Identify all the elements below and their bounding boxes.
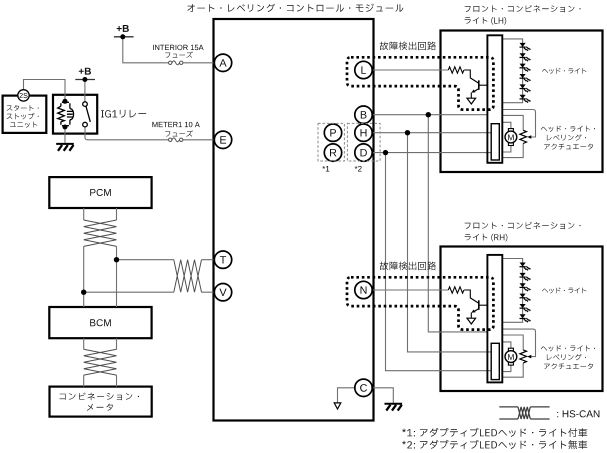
node B branch — [426, 112, 431, 117]
text: *1 marker — [322, 166, 329, 172]
headlight unit internals (RH) — [487, 255, 535, 383]
relay coil — [58, 102, 74, 125]
text: terminal letter E — [220, 136, 226, 143]
actuator label line3 (RH) — [544, 363, 593, 369]
terminal H — [355, 124, 372, 141]
text: actuator line3 — [544, 144, 593, 150]
relay switch — [83, 102, 91, 127]
terminal B — [355, 106, 372, 123]
wire terminal D to LH actuator — [372, 152, 491, 154]
wire PCM to braid to BCM (left conductor) — [83, 208, 85, 387]
ground (terminal C) — [385, 404, 403, 411]
text: terminal letter R — [330, 149, 336, 156]
start-stop unit box — [3, 96, 47, 133]
terminal E — [214, 131, 231, 148]
detection resistor — [448, 67, 464, 73]
ground (relay coil) — [56, 144, 74, 151]
text: +B label 2 — [79, 68, 91, 75]
headlight internal unit rectangle — [487, 35, 502, 163]
wire 2S to relay coil — [24, 80, 66, 102]
text: terminal letter A — [219, 59, 226, 66]
PCM box — [49, 177, 151, 208]
text: motor letter M LH — [508, 135, 514, 141]
text: note 1 adaptive LED with — [402, 428, 587, 437]
text: terminal letter B — [361, 111, 367, 118]
text: *2 marker — [355, 166, 362, 172]
text: fault detection circuit label — [380, 42, 436, 51]
twisted pair braid PCM-BCM — [84, 220, 117, 246]
front combination light LH box — [441, 31, 603, 173]
text: actuator line1 — [541, 126, 595, 132]
node CAN-L branch — [81, 290, 86, 295]
wire +B down to relay switch — [84, 80, 86, 102]
text: terminal letter H — [361, 129, 367, 136]
fault detection circuit (RH) — [347, 277, 493, 329]
text: note 2 adaptive LED without — [402, 440, 587, 449]
transistor Q (detection) — [464, 70, 487, 104]
wire CAN-L to terminal V — [84, 291, 215, 293]
wire CAN-H to terminal T — [117, 259, 215, 261]
relay coil node (bottom) — [63, 125, 68, 130]
node D branch — [383, 150, 388, 155]
text: HS-CAN legend text — [557, 410, 599, 417]
wire terminal H to LH actuator — [372, 132, 491, 134]
terminal L — [355, 61, 372, 78]
failure detection dotted enclosure — [347, 57, 493, 109]
text: terminal letter P — [330, 129, 336, 136]
terminal A — [214, 54, 231, 71]
LED string (6 LEDs) — [520, 43, 532, 103]
text: start-stop unit line1 — [7, 105, 39, 111]
text: terminal letter V — [219, 289, 226, 296]
front combination light RH box — [441, 247, 603, 392]
twisted pair braid to terminals T V — [174, 260, 202, 293]
+B source (to IG1 relay) — [75, 77, 95, 82]
text: combination meter line2 — [87, 404, 113, 411]
wiper arrow — [527, 135, 531, 139]
terminal P — [324, 124, 341, 141]
text: terminal letter N — [361, 286, 367, 293]
combination meter box — [50, 387, 152, 417]
text: terminal letter T — [220, 256, 226, 263]
text: title auto-leveling-control-module — [187, 4, 403, 12]
text: fuse label METER1 10 A — [152, 122, 199, 127]
wires actuator: position resistor top — [502, 115, 523, 130]
text: actuator line2 — [547, 134, 586, 140]
arrow out (terminal C internal) — [334, 403, 341, 409]
wires actuator: wiper feed — [502, 110, 535, 138]
twisted pair braid BCM-combination meter — [84, 349, 117, 375]
IG1 relay box — [53, 95, 97, 134]
wires actuator: motor bottom — [502, 146, 511, 153]
node CAN-H branch — [114, 257, 119, 262]
wire H branch down to RH actuator — [408, 133, 492, 352]
text: terminal letter L — [361, 66, 366, 73]
fuse INTERIOR 15A — [169, 61, 183, 65]
text: front combination line1 — [465, 5, 581, 12]
text: IG1 relay label — [101, 110, 146, 118]
actuator label line1 (RH) — [541, 345, 595, 351]
fault detection label (RH) — [380, 262, 436, 271]
text: PCM label — [90, 189, 111, 196]
text: fuse label INTERIOR 15A — [153, 45, 204, 50]
terminal D — [355, 144, 372, 161]
wires actuator: position resistor bottom — [502, 144, 523, 158]
terminal R — [324, 144, 341, 161]
position sensor resistor — [520, 130, 527, 143]
text: fuse kana label — [165, 52, 193, 58]
fuse kana label (METER1) — [165, 130, 193, 136]
wire PCM to braid to BCM (right conductor) — [116, 208, 118, 387]
head light label (RH) — [542, 288, 586, 294]
text: combination meter line1 — [60, 393, 140, 401]
wire +B to fuse to terminal A — [123, 37, 215, 63]
wire B branch down to RH light — [428, 115, 487, 332]
text: start-stop unit line3 — [10, 122, 37, 128]
terminal C — [355, 379, 372, 396]
connector 2S — [18, 90, 29, 101]
relay coil node (top) — [63, 99, 68, 104]
text: light (RH) — [465, 234, 508, 242]
text: terminal letter C — [360, 384, 367, 392]
text: head light label — [542, 68, 586, 74]
leveling motor M — [505, 129, 517, 146]
wire D branch down to RH actuator — [386, 153, 492, 371]
terminal V — [214, 284, 231, 301]
text: start-stop unit line2 — [7, 113, 39, 120]
auto leveling control module box — [214, 19, 374, 421]
wire LED string feed — [502, 39, 522, 103]
actuator label line2 (RH) — [547, 354, 586, 360]
fuse METER1 10A — [169, 138, 183, 142]
wire terminal C left to arrow — [338, 388, 356, 403]
text: light (LH) — [465, 17, 507, 25]
wire relay switch out to fuse to terminal E — [85, 127, 215, 140]
text: 2S connector label — [20, 93, 28, 98]
+B source (to INTERIOR fuse) — [114, 34, 134, 39]
wires actuator: motor top — [502, 122, 511, 128]
dashed box *1 (terminals P R) — [318, 123, 344, 161]
wire terminal C right to ground — [372, 388, 393, 403]
BCM box — [49, 307, 151, 338]
text: motor letter M RH — [508, 354, 514, 360]
dashed box *2 (terminals H D) — [347, 123, 380, 161]
terminal N — [355, 281, 372, 298]
node H branch — [405, 130, 410, 135]
wire terminal L to detection resistor — [372, 69, 448, 71]
front combination label line1 (RH) — [465, 222, 581, 229]
text: terminal letter D — [361, 149, 367, 156]
wire terminal B to LH light — [372, 114, 488, 116]
actuator connector rectangle — [491, 124, 499, 160]
text: BCM label — [90, 319, 111, 326]
terminal T — [214, 251, 231, 268]
text: +B label 1 — [117, 25, 129, 32]
wire relay coil to ground — [64, 127, 66, 143]
